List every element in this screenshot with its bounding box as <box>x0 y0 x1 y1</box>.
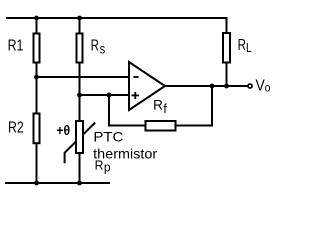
svg-text:R: R <box>91 37 99 54</box>
svg-text:R2: R2 <box>8 119 24 136</box>
svg-text:+θ: +θ <box>56 122 70 138</box>
svg-text:R: R <box>153 97 163 113</box>
svg-text:L: L <box>246 40 252 55</box>
svg-text:f: f <box>163 102 167 116</box>
svg-text:p: p <box>104 161 111 175</box>
svg-text:o: o <box>265 81 271 94</box>
svg-text:R: R <box>238 37 246 54</box>
svg-text:thermistor: thermistor <box>93 146 157 162</box>
svg-text:PTC: PTC <box>93 128 123 144</box>
svg-text:s: s <box>100 41 106 57</box>
svg-text:R1: R1 <box>8 37 24 54</box>
